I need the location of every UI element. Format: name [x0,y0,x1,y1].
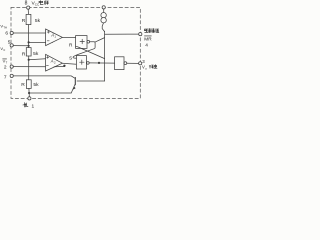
output buffer G3 [115,57,124,70]
svg-text:2: 2 [4,64,7,70]
wire trigger tie under A2 [54,66,64,68]
wire pin7 to transistor collector [13,76,75,78]
resistor R2 (5k) [26,48,31,56]
svg-text:3: 3 [142,59,145,64]
latch gate G2 (bottom box) [76,56,86,69]
label 电源 (power) glyph blobs [39,1,48,5]
wire pin2 to A2 - input [13,66,54,68]
pin 4 (forced reset MR) [139,33,142,36]
V_TH label [0,23,7,29]
MR text with overline [144,36,152,41]
svg-text:T: T [6,61,8,65]
svg-text:5k: 5k [35,18,41,24]
latch gate G1 (top box) [76,36,87,49]
pin 2 (trigger) [10,65,13,68]
comparator A2 [46,54,63,71]
ground rail wire [29,92,71,94]
输出 label glyphs [149,65,157,69]
V_TR label with overline [3,59,8,65]
svg-text:CC: CC [35,2,40,6]
wire transistor to MR vertical [102,23,104,32]
Vcc label [32,1,40,7]
resistor R1 (5k) [26,14,31,24]
强制复位 label glyphs [145,29,159,33]
svg-text:1: 1 [32,103,35,109]
G3 output bubble [124,62,127,65]
pin 8 (Vcc) [27,6,30,9]
svg-text:7: 7 [4,75,7,81]
G1 internal plus mark [80,39,84,44]
wire MR branch to G1 output node [95,38,105,43]
Vo label [142,64,147,70]
wire R1 to node A [28,25,30,48]
node B dot (1/3 Vcc) [28,59,30,61]
node A upper dot (2/3 Vcc) [28,41,30,43]
IC boundary dashed box [11,7,140,98]
A2 output wire to latch S input [62,62,76,65]
svg-text:R: R [69,42,73,47]
wire node A to A1 - input [29,41,53,43]
wire pin6 to A1 + input [13,32,45,34]
pin 3 (output) [139,62,142,65]
V_C label [0,46,5,52]
svg-text:o: o [145,66,147,70]
base wire from Q node to transistor VT [77,80,105,82]
A1 output wire to latch R input [62,36,75,38]
transistor VT base bar [74,78,76,85]
svg-text:5k: 5k [33,82,39,88]
svg-text:MR: MR [144,36,152,41]
svg-text:R: R [22,18,26,24]
G2 internal plus mark [80,60,84,64]
cross-coupling wire from G1 output to G2 input [73,42,95,58]
G2 output wire to Q node [89,62,114,64]
node A lower dot [28,45,30,47]
wire MR to pin 4 [105,33,139,35]
svg-text:TH: TH [3,25,7,29]
wire G3 to pin 3 [127,62,139,64]
wire pin5 to node A lower dot [13,45,28,47]
pin 7b top (second top pin) [102,6,105,9]
wire pin8 to R1 [27,9,29,14]
pin 6 (threshold) [10,31,13,34]
svg-text:4: 4 [145,42,148,48]
pin 5 (control voltage) [10,44,13,47]
MR vertical bus wire [104,31,106,81]
comparator A1 [46,29,63,46]
pin 1 (ground) [28,97,31,100]
pin 7 (discharge) [10,74,13,77]
svg-text:R: R [21,82,25,88]
G2 output bubble [87,62,90,65]
svg-text:8: 8 [25,1,28,7]
wire node B to A2 + input [29,59,46,60]
wire R3 to ground rail [28,88,30,93]
地 label glyph [23,103,28,107]
svg-text:5: 5 [8,39,11,45]
wire top pin to transistor symbol [103,9,105,13]
transistor VT emitter with arrow [71,84,75,92]
cross-coupling wire from Q node to G1 input [76,46,105,58]
G1 output bubble [87,40,90,43]
svg-text:C: C [3,48,5,52]
transistor VT1 envelope (stacked circles symbol) [101,13,106,18]
wire R2 to node B [28,56,30,80]
resistor R3 (5k) [26,80,31,89]
junction dot Q node [98,62,100,64]
wire to pin 1 [28,93,30,97]
junction dot on A2 output [63,65,65,67]
svg-text:R: R [22,51,26,57]
svg-text:S: S [69,56,72,61]
wire: A2 output junction drop (trigger tie) [63,65,65,68]
svg-text:5k: 5k [33,51,39,57]
ground rail junction dot [28,92,30,94]
svg-text:6: 6 [5,31,8,37]
